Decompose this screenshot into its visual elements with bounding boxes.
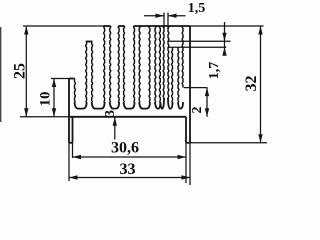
dim 1,5 line left <box>144 15 164 17</box>
gap fillet between wall and fin F1 <box>75 102 87 109</box>
tall fin F4 left serrated edge <box>133 26 136 102</box>
extension line serration upper (for 1,7) <box>168 40 231 42</box>
gap fillet between F2 and F3 <box>110 102 119 109</box>
extension line top-left (fin top level) <box>23 25 105 27</box>
rib F7 left serrated edge <box>171 47 174 102</box>
slit left serrated edge <box>162 26 165 98</box>
extension line slit left (for 1,5) <box>163 13 165 29</box>
dim 30,6 line <box>73 156 187 158</box>
tall fin F4 right serrated edge <box>138 26 141 102</box>
right leg foot <box>186 142 190 144</box>
tall fin F3 left serrated edge <box>117 26 120 102</box>
extension line 30,6 right <box>185 143 187 183</box>
fin F5 right serrated edge <box>154 26 157 102</box>
svg-text:1,5: 1,5 <box>188 1 206 16</box>
extension line 33 right <box>189 143 191 185</box>
tall fin F2 right serrated edge <box>109 26 112 102</box>
dim 2 arrow top <box>205 88 209 97</box>
svg-text:3: 3 <box>103 110 118 117</box>
cavity fillet right of slit <box>168 98 173 109</box>
dim 32 arrow bottom <box>258 134 262 143</box>
dim 33 arrow right <box>182 175 191 179</box>
left wall top <box>69 78 75 80</box>
dim 1,5 arrow right <box>168 14 177 18</box>
closed channel fillet between F7 and right wall <box>178 102 183 109</box>
dim 1,5 arrow left <box>156 14 165 18</box>
extension line bottom-right (for 32) <box>190 142 267 144</box>
base bottom / channel ceiling <box>69 116 186 118</box>
extension line 33 left <box>68 143 70 181</box>
tall fin F3 top <box>118 25 124 27</box>
dim 25 line <box>25 26 27 117</box>
extension line groove shelf (for 2) <box>184 87 208 89</box>
closed channel fillet between F5 and F6 <box>155 102 160 109</box>
dim 10 line <box>53 79 55 117</box>
dim 1,5 line right <box>168 15 186 17</box>
dim 1,7 arrow upper <box>222 33 226 42</box>
right leg inner edge <box>185 117 187 143</box>
dim 3 line <box>114 117 116 139</box>
dim 10 arrow bottom <box>52 108 56 117</box>
dim 32 line <box>260 26 262 143</box>
left leg inner edge <box>72 117 74 143</box>
svg-text:25: 25 <box>12 63 29 79</box>
dim 2 arrow bottom <box>205 108 209 117</box>
dim 25 arrow top <box>24 26 28 35</box>
left wall inner serrated edge <box>74 79 77 103</box>
fin F6 left serrated edge <box>158 26 161 102</box>
extension line top-right (to 32 dim) <box>190 25 264 27</box>
dim 25 arrow bottom <box>24 108 28 117</box>
fin F5 left serrated edge <box>148 26 151 102</box>
slit right serrated edge <box>167 26 170 98</box>
svg-text:1,7: 1,7 <box>207 62 222 80</box>
dim 1,7 line <box>224 22 226 56</box>
gap fillet between F1 and F2 <box>92 102 105 109</box>
extension line base bottom left (for 25 and 10) <box>20 116 69 118</box>
extension line serration lower (for 1,7) <box>168 46 226 48</box>
dim 33 arrow left <box>69 175 78 179</box>
tall fin F2 left serrated edge <box>103 26 106 102</box>
dim 2 line <box>206 88 208 117</box>
solid top web from F4 to right edge <box>134 25 190 27</box>
dim 30,6 arrow left <box>73 155 82 159</box>
svg-text:33: 33 <box>120 161 136 178</box>
left wall outer edge <box>68 79 70 143</box>
tall fin F2 top <box>104 25 111 27</box>
svg-text:10: 10 <box>38 92 54 107</box>
extension line slit right (for 1,5) <box>167 13 169 29</box>
right wall inner serrated edge <box>181 26 184 88</box>
tall fin F3 right serrated edge <box>123 26 126 102</box>
closed channel fillet between F4 and F5 <box>139 102 150 109</box>
rib F7 right serrated edge <box>177 47 180 102</box>
svg-text:30,6: 30,6 <box>111 140 139 157</box>
short fin F1 top <box>86 41 93 43</box>
dim 10 arrow top <box>52 79 56 88</box>
svg-text:32: 32 <box>243 76 260 92</box>
dim 1,7 arrow lower <box>222 47 226 56</box>
extension line wall top (for 10) <box>51 78 69 80</box>
page left edge artifact <box>0 27 2 122</box>
left leg foot <box>69 142 73 144</box>
right wall outer edge <box>189 26 191 143</box>
slit bottom fillet <box>160 98 164 109</box>
extension line 30,6 left <box>72 143 74 158</box>
dim 3 arrow <box>113 117 117 126</box>
dim 33 line <box>69 177 190 179</box>
short fin F1 right serrated edge <box>91 42 94 103</box>
dim 30,6 arrow right <box>178 155 187 159</box>
svg-text:2: 2 <box>190 107 205 114</box>
gap fillet between F3 and F4 <box>124 102 135 109</box>
short fin F1 left serrated edge <box>85 42 88 103</box>
dim 32 arrow top <box>258 26 262 35</box>
